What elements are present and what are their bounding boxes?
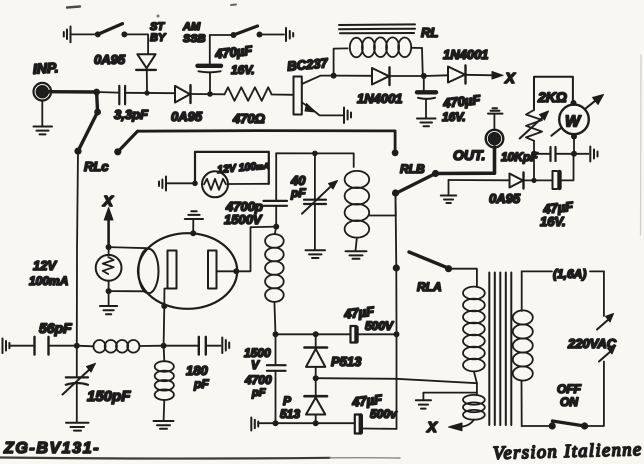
wire switch to D1 (124, 34, 148, 54)
mains lead upper with arrow (597, 271, 614, 329)
node F (tank left) (74, 343, 80, 349)
wire switch to right ground (260, 34, 285, 36)
svg-text:P: P (283, 394, 292, 408)
wire INP to node A (thick) (48, 90, 97, 94)
svg-text:56pF: 56pF (39, 320, 72, 336)
capacitor C8 180pF (164, 337, 221, 391)
svg-text:BY: BY (150, 32, 167, 44)
node C (collector) (331, 73, 337, 79)
capacitor C2 470uF 16V (electrolytic) (198, 35, 255, 94)
svg-text:1N4001: 1N4001 (443, 47, 489, 62)
wire D2 to R1 with node B (191, 93, 225, 95)
wire meter rail 10KpF (534, 153, 589, 155)
node E (plate node) (273, 224, 279, 230)
ground below INP (34, 101, 53, 135)
svg-text:4700: 4700 (244, 373, 272, 387)
svg-text:RLB: RLB (400, 162, 425, 176)
svg-text:V: V (251, 358, 260, 372)
switch S3 OFF/ON (522, 382, 589, 430)
node A junction (93, 89, 100, 96)
arrow to X (top right) (492, 72, 503, 80)
svg-text:16V.: 16V. (442, 110, 466, 124)
svg-text:P513: P513 (331, 354, 362, 369)
svg-text:500V: 500V (365, 319, 394, 333)
svg-text:10KpF: 10KpF (501, 150, 538, 164)
capacitor C6 56pF (35, 320, 77, 355)
svg-text:2KΩ: 2KΩ (537, 89, 567, 105)
ground below OUT wire (441, 180, 456, 203)
svg-text:INP.: INP. (32, 59, 58, 77)
svg-text:ZG-BV131-: ZG-BV131- (3, 440, 100, 457)
variable capacitor C5 40pF (290, 153, 338, 249)
relay RL coil (350, 25, 439, 57)
svg-text:X: X (504, 70, 516, 87)
svg-text:pF: pF (290, 186, 306, 200)
inverted ground above OUT (488, 108, 503, 130)
ground at Q1 emitter (side) (344, 108, 351, 124)
inductor L2 (tank coil, tapped) (345, 171, 370, 251)
node I (531, 151, 537, 157)
svg-text:OFF: OFF (557, 382, 582, 396)
wire D5 to C9 and pot node (524, 179, 553, 181)
node G (161, 343, 167, 349)
lamp LP2 12V 100mA (in box) (192, 159, 270, 197)
left rail wire RLC to tank junction (77, 151, 78, 346)
node B (470uF branch) (207, 91, 213, 97)
node N (mid rail) (313, 375, 319, 381)
node 40pF branch (312, 151, 318, 157)
tube top cap wire to inverted ground (185, 211, 203, 233)
capacitor C9 47uF 16V (electrolytic) (540, 155, 575, 229)
ground below lamp LP1 (100, 291, 117, 314)
svg-text:X: X (426, 419, 438, 436)
switch RLC (SPDT on input) (74, 92, 137, 174)
ground below C3 (417, 119, 436, 127)
variable capacitor C7 150pF (63, 346, 132, 422)
box around lamp LP2 (195, 152, 269, 184)
mains lead lower with arrow (587, 346, 616, 427)
svg-text:3,3pF: 3,3pF (114, 107, 149, 122)
svg-text:12V: 12V (33, 258, 57, 273)
svg-text:OUT.: OUT. (453, 147, 485, 163)
wire OUT to RLB common (thick) (436, 147, 495, 173)
svg-text:513: 513 (280, 407, 300, 421)
ground right of C10 (side) (590, 147, 597, 162)
wire top rail (B+) to 40pF and tank coil (276, 153, 354, 167)
capacitor C3 470uF 16V (relay) (417, 76, 482, 124)
paper edge right (640, 55, 643, 235)
svg-text:12V 100mA: 12V 100mA (217, 159, 270, 176)
ground left of bottom rail (side) (251, 418, 258, 431)
svg-text:RLA: RLA (417, 280, 442, 294)
relay core lines (339, 24, 415, 33)
ground below L2 (346, 251, 367, 258)
svg-text:1N4001: 1N4001 (357, 91, 403, 106)
svg-text:ON: ON (560, 395, 578, 409)
top supply rail (47uF 500V) (276, 333, 397, 335)
ground below L4 (154, 421, 174, 429)
switch RLB (392, 149, 439, 196)
wire lamp LP1 to tube grid cap (bottom) (109, 290, 146, 292)
inductor L4 (vertical, small) (155, 346, 174, 420)
wire node A to C1 (97, 91, 118, 94)
arrow to X (filament) (449, 423, 463, 431)
wire primary bottom to mid rail (316, 378, 477, 383)
lamp LP1 (left, 12V 100mA) (29, 244, 122, 294)
fuse F1 1,6A (522, 267, 604, 281)
net arrow X (mid-left) (102, 193, 114, 246)
bottom supply rail (258, 423, 396, 429)
transformer T1 core (489, 273, 511, 426)
wire L2 tap to RLB lower contact (369, 195, 396, 216)
svg-text:150pF: 150pF (87, 388, 131, 405)
svg-text:W: W (565, 114, 582, 131)
stray marks (67, 7, 80, 8)
capacitor C1 3,3pF (114, 86, 149, 122)
wire coil right down to node D (421, 48, 424, 76)
capacitor C11 47uF 500V (342, 303, 394, 342)
node L (313, 331, 319, 337)
svg-text:X: X (102, 193, 114, 210)
switch AM SSB (182, 21, 263, 45)
ground left of lamp box (side) (159, 177, 195, 191)
svg-text:0A95: 0A95 (94, 52, 126, 67)
wire C1 to D2 with node of D1 (125, 92, 174, 94)
wire tube cathode down (164, 289, 168, 346)
svg-text:16V.: 16V. (231, 63, 255, 77)
capacitor C12 1500V 4700pF (244, 334, 286, 423)
wire lamp LP1 to tube grid cap (top) (109, 247, 148, 248)
node O (273, 420, 279, 426)
transistor Q1 BC237 (287, 55, 343, 115)
switch ST BY (95, 21, 167, 44)
node D (421, 73, 427, 79)
wire tube anode to node E (217, 227, 277, 272)
svg-text:180: 180 (186, 363, 208, 378)
diode D5 0A95 (meter) (489, 173, 524, 207)
wire ground stub to D5 (449, 179, 510, 181)
transformer T1 primary (463, 287, 485, 384)
node under D1 (144, 90, 149, 95)
svg-text:RLc: RLc (84, 159, 109, 174)
svg-text:AM: AM (182, 21, 201, 33)
diode D7 P513 (lower) (280, 378, 327, 423)
diode D6 P513 (upper) (305, 334, 363, 378)
diode D3 1N4001 (flyback) (334, 67, 421, 106)
capacitor C10 10KpF (501, 147, 556, 164)
diode D1 0A95 (vertical) (94, 52, 156, 93)
svg-text:500v: 500v (370, 407, 398, 421)
long wire RLC to RLB upper contact (138, 131, 396, 152)
resistor R1 470ohm (225, 87, 272, 126)
svg-text:470µF: 470µF (441, 92, 482, 111)
svg-text:pF: pF (251, 387, 266, 399)
node P (313, 420, 319, 426)
svg-text:SSB: SSB (183, 33, 206, 45)
ground right of AM/SSB switch (side) (286, 28, 293, 41)
wire pot bottom to D5 node (533, 154, 535, 181)
inductor L3 (horizontal) (77, 340, 164, 353)
svg-text:pF: pF (193, 377, 209, 391)
node H (pot bottom) (531, 178, 536, 183)
svg-text:470µF: 470µF (213, 43, 254, 62)
transformer T1 filament winding (462, 383, 485, 427)
svg-text:1500V: 1500V (224, 212, 263, 227)
transformer T1 secondary (513, 271, 533, 426)
rail RLB to RLA and supplies (396, 195, 397, 429)
ground below C5 (306, 250, 326, 258)
connector J1 INP (32, 59, 58, 100)
svg-text:Version Italienne: Version Italienne (493, 440, 643, 464)
vacuum tube V1 (138, 230, 239, 309)
connector J2 OUT (453, 130, 503, 163)
wire C2 top to switch AM/SSB (210, 34, 231, 36)
svg-text:BC237: BC237 (287, 55, 329, 74)
svg-text:RL: RL (421, 25, 438, 40)
ground below C7 (66, 423, 89, 431)
wire R1 to Q1 base (272, 94, 294, 96)
svg-text:470Ω: 470Ω (232, 111, 265, 126)
wire D4 to X arrow (466, 74, 495, 77)
ground left of 56pF (side) (3, 339, 34, 354)
potentiometer R2 2K (520, 89, 567, 154)
diode D2 0A95 (horizontal, main line) (171, 85, 203, 124)
svg-text:0A95: 0A95 (171, 109, 203, 124)
wire RLA to transformer primary (449, 269, 477, 287)
node J (571, 151, 577, 157)
wire node C up to relay coil (334, 48, 348, 75)
meter M1 W (551, 95, 603, 154)
capacitor C4 4700p 1500V (224, 153, 287, 227)
svg-text:16V.: 16V. (540, 214, 566, 229)
wire bracket over pot and meter (534, 77, 573, 109)
paper fold line (0, 458, 330, 459)
node M (394, 331, 400, 337)
svg-text:100mA: 100mA (29, 274, 68, 288)
switch RLA (393, 252, 452, 294)
ground at transformer (filament) (416, 393, 477, 409)
diode D4 1N4001 (series to X) (424, 47, 489, 84)
ground right of 180pF (side) (222, 338, 229, 354)
svg-text:0A95: 0A95 (489, 191, 521, 206)
inductor L1 (plate choke) (265, 227, 284, 335)
ground top-left (side) (64, 27, 95, 43)
node K (273, 331, 279, 337)
capacitor C13 47uF 500V (lower) (350, 391, 398, 433)
svg-text:(1,6A): (1,6A) (553, 267, 586, 281)
